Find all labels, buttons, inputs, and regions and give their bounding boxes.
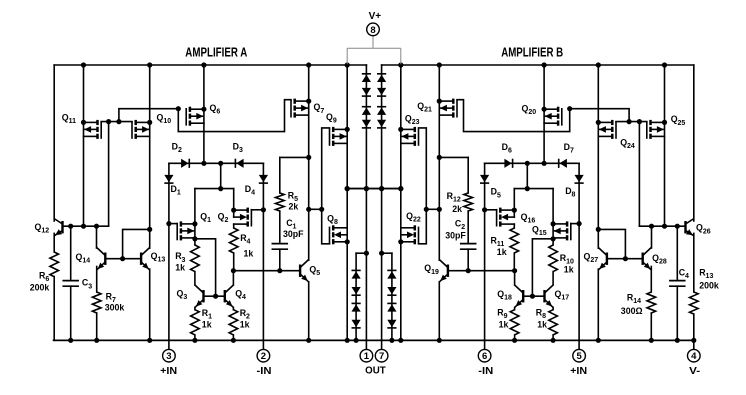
- svg-text:2: 2: [261, 351, 266, 362]
- wire diode network D5-D8: [485, 161, 579, 166]
- transistor Q1: [177, 221, 195, 240]
- resistor R6: [50, 252, 59, 277]
- transistor Q4: [225, 285, 234, 307]
- resistor R1: [191, 310, 200, 335]
- wire rail drop through Q7 to Q5 collector: [306, 62, 311, 260]
- diode chain top (D-string A): [362, 74, 371, 128]
- diode chain top (D-string B): [377, 74, 386, 128]
- diode D7: [559, 159, 567, 168]
- wire R11 to node: [512, 253, 517, 273]
- svg-text:1k: 1k: [497, 247, 507, 257]
- diode chain bottom (B side): [382, 253, 397, 343]
- wire C1 to Q5 base node: [277, 249, 282, 273]
- svg-text:1k: 1k: [175, 262, 185, 272]
- wire R2 to V- rail: [231, 335, 236, 343]
- wire Q17 emitter to R8: [552, 307, 554, 309]
- svg-text:1k: 1k: [244, 249, 254, 259]
- diode D1: [164, 175, 173, 183]
- wire rail drop to Q24 / Q27 collector: [596, 62, 601, 248]
- resistor R8: [549, 310, 558, 335]
- wire Q2 drain column: [231, 189, 236, 218]
- pin 3 terminal: [163, 349, 176, 362]
- wire +IN column (pin 5): [577, 163, 582, 349]
- wire Q16 drain column: [512, 189, 517, 218]
- wire R6 to V- rail: [53, 277, 55, 341]
- svg-text:2k: 2k: [289, 202, 299, 212]
- svg-text:1k: 1k: [564, 264, 574, 274]
- wire Q27/Q28 base net: [598, 229, 642, 261]
- wire Q17/Q18 base net: [523, 239, 553, 299]
- transistor Q14: [97, 248, 106, 270]
- wire rail drop through Q9 to node: [345, 62, 350, 188]
- svg-text:8: 8: [370, 25, 375, 36]
- svg-text:5: 5: [576, 351, 582, 362]
- wire Q1 drain column: [192, 189, 197, 245]
- wire Q4 emitter to R2: [232, 307, 234, 309]
- pin 6 terminal: [478, 349, 491, 362]
- svg-text:+IN: +IN: [570, 366, 587, 377]
- wire +IN column (pin 3): [166, 163, 171, 349]
- transistor Q23: [401, 127, 419, 146]
- wire Q19 emitter to V- rail: [437, 282, 442, 343]
- wire R5 to C1: [279, 211, 281, 244]
- resistor R2: [229, 310, 238, 335]
- svg-text:1k: 1k: [202, 319, 212, 329]
- wire OUT column (pin 1): [364, 65, 369, 349]
- transistor Q19: [439, 260, 448, 282]
- svg-text:2k: 2k: [452, 204, 462, 214]
- wire R5 branch: [280, 157, 309, 193]
- transistor Q17: [545, 285, 554, 307]
- wire R10 to Q17 collector: [552, 272, 554, 285]
- pin 2 terminal: [257, 349, 270, 362]
- wire C4 top lead: [676, 226, 678, 280]
- wire Q2 source to R4: [233, 224, 235, 228]
- diode D5: [480, 175, 489, 183]
- wire Q15 gate lead: [571, 223, 579, 225]
- wire Q16 source to R11: [513, 224, 515, 228]
- wire V- rail to pin 4: [691, 338, 696, 350]
- pin 8 V+ terminal: [367, 23, 380, 36]
- wire Q18 emitter to R9: [514, 307, 516, 309]
- wire Q4 collector: [232, 271, 234, 285]
- wire OUT column (pin 7): [379, 65, 384, 349]
- resistor R10: [549, 245, 558, 272]
- pin 4 terminal: [688, 349, 701, 362]
- svg-text:300Ω: 300Ω: [621, 306, 643, 316]
- wire Q28 collector riser: [651, 226, 653, 248]
- svg-text:200k: 200k: [699, 281, 719, 291]
- transistor Q6: [186, 107, 204, 126]
- wire V- rail (mirror overlay): [54, 339, 694, 341]
- wire rail drop through Q21 to Q19 collector: [437, 62, 442, 260]
- svg-text:6: 6: [482, 351, 487, 362]
- wire Q12 base net: [63, 224, 109, 229]
- wire Q2 gate lead: [251, 209, 263, 211]
- wire Q18 collector: [514, 271, 516, 285]
- svg-text:AMPLIFIER A: AMPLIFIER A: [185, 46, 247, 60]
- svg-text:1k: 1k: [240, 319, 250, 329]
- wire R3 to Q3 collector: [194, 272, 196, 285]
- resistor R13: [690, 292, 699, 314]
- transistor Q7: [291, 99, 309, 118]
- wire Q11-Q10 gate net: [101, 106, 181, 226]
- diode D6: [504, 159, 512, 168]
- svg-text:300k: 300k: [105, 302, 125, 312]
- wire Q20 gate to Q21 gate: [457, 100, 570, 132]
- wire Q8 drain-source column: [345, 189, 350, 343]
- resistor R12: [464, 193, 473, 211]
- transistor Q28: [643, 248, 652, 270]
- svg-text:1k: 1k: [537, 320, 547, 330]
- transistor Q16: [497, 208, 515, 227]
- wire Q13/Q14 base net: [105, 229, 149, 261]
- wire V+ rail (A side): [54, 64, 366, 66]
- wire Q28 emitter to R14: [650, 267, 652, 293]
- transistor Q13: [141, 248, 150, 270]
- diode chain bottom (A side): [352, 253, 367, 343]
- svg-text:AMPLIFIER B: AMPLIFIER B: [501, 46, 563, 60]
- wire rail drop to Q6 source node: [201, 62, 206, 165]
- wire Q1 gate lead: [169, 223, 177, 225]
- svg-text:4: 4: [691, 351, 697, 362]
- transistor Q18: [515, 285, 524, 307]
- wire Q13 emitter to V- rail: [147, 269, 152, 343]
- transistor Q21: [439, 99, 457, 118]
- svg-text:-IN: -IN: [478, 366, 493, 377]
- wire rail drop to Q10 / Q13 collector: [147, 62, 152, 248]
- transistor Q9: [330, 127, 348, 146]
- wire C2 to Q19 base node: [466, 249, 471, 273]
- wire Q26 emitter to R13: [693, 233, 695, 292]
- wire Q6 gate to Q7 gate: [178, 100, 291, 132]
- wire bias node horizontal (mirror overlay): [345, 186, 404, 191]
- transistor Q8: [330, 225, 348, 244]
- resistor R9: [510, 310, 519, 335]
- resistor R14: [647, 292, 656, 313]
- wire right edge (Q26 collector to rail): [693, 65, 695, 221]
- wire Q14 collector riser: [96, 226, 98, 248]
- transistor Q20: [544, 107, 562, 126]
- resistor R7: [92, 292, 101, 313]
- wire diode network D1-D4: [169, 161, 264, 166]
- diode D4: [259, 175, 268, 183]
- wire R9 to V- rail: [512, 335, 517, 343]
- wire -IN column (pin 2): [261, 163, 266, 349]
- wire R14 to V- rail: [649, 313, 654, 343]
- wire C3 to V- rail: [68, 286, 73, 343]
- wire rail drop through Q23 to node: [398, 62, 403, 188]
- wire R12 to C2: [467, 211, 469, 244]
- wire bias node horizontal: [345, 186, 404, 191]
- wire Q3 emitter to R1: [194, 307, 196, 309]
- resistor R11: [510, 228, 519, 253]
- resistor R4: [229, 228, 238, 253]
- transistor Q2: [234, 208, 252, 227]
- wire R12 branch: [439, 157, 468, 193]
- svg-text:7: 7: [379, 351, 384, 362]
- wire -IN column (pin 6): [482, 163, 487, 349]
- wire Q5 emitter to V- rail: [306, 282, 311, 343]
- wire V+ pin 8 feed (thin): [347, 36, 401, 64]
- capacitor C1: [272, 244, 287, 250]
- svg-text:1: 1: [364, 351, 370, 362]
- wire Q19 base net: [448, 270, 514, 272]
- svg-text:200k: 200k: [30, 283, 50, 293]
- transistor Q10: [132, 120, 150, 139]
- wire left edge (Q12 collector to rail): [53, 65, 55, 221]
- wire C3 top lead: [70, 226, 72, 280]
- wire rail drop to Q11: [81, 62, 86, 228]
- pin 1 terminal: [360, 349, 373, 362]
- transistor Q11: [84, 120, 102, 139]
- wire Q22 drain-source column: [398, 189, 403, 343]
- wire Q27 emitter to V- rail: [596, 269, 601, 343]
- wire Q5 base net: [234, 270, 300, 272]
- svg-text:OUT: OUT: [365, 366, 386, 377]
- pin 7 terminal: [375, 349, 388, 362]
- transistor Q24: [598, 120, 616, 139]
- transistor Q25: [647, 120, 665, 139]
- wire Q3/Q4 base net: [195, 239, 225, 299]
- pin 5 terminal: [573, 349, 586, 362]
- diode D8: [575, 175, 584, 183]
- transistor Q26: [686, 219, 695, 236]
- wire R7 to V- rail: [94, 313, 99, 343]
- wire R13 to V- rail: [693, 314, 695, 340]
- wire V+ rail (B side): [382, 64, 694, 66]
- wire input pair tail (B side): [514, 163, 553, 191]
- transistor Q3: [195, 285, 204, 307]
- transistor Q15: [553, 221, 571, 240]
- diode D2: [181, 159, 189, 168]
- wire R1 to V- rail: [192, 335, 197, 343]
- wire Q25-Q24 gate net: [567, 106, 647, 226]
- transistor Q22: [401, 225, 419, 244]
- resistor R5: [276, 193, 285, 211]
- capacitor C2: [461, 244, 476, 250]
- wire Q8/Q9 gate net: [309, 128, 330, 244]
- svg-text:-IN: -IN: [257, 366, 272, 377]
- svg-text:V-: V-: [689, 366, 700, 377]
- capacitor C3: [63, 281, 78, 287]
- wire R4 to node: [231, 253, 236, 273]
- wire Q26 base net: [639, 224, 685, 229]
- wire Q14 emitter to R7: [96, 267, 98, 293]
- wire rail drop to Q25: [662, 62, 667, 228]
- transistor Q12: [54, 219, 63, 236]
- wire Q15 drain column: [551, 189, 556, 245]
- svg-text:3: 3: [166, 351, 171, 362]
- svg-text:30pF: 30pF: [283, 229, 304, 239]
- wire V- rail: [54, 339, 694, 341]
- capacitor C4: [670, 281, 685, 287]
- diode D3: [235, 159, 243, 168]
- svg-text:30pF: 30pF: [445, 230, 466, 240]
- svg-text:+IN: +IN: [160, 366, 177, 377]
- transistor Q27: [598, 248, 607, 270]
- wire input pair tail: [195, 163, 234, 191]
- wire Q22/Q23 gate net: [419, 128, 440, 244]
- wire Q16 gate lead: [485, 209, 497, 211]
- wire Q12 emitter to R6: [53, 233, 55, 252]
- transistor Q5: [300, 260, 309, 282]
- svg-text:1k: 1k: [499, 320, 509, 330]
- wire R8 to V- rail: [551, 335, 556, 343]
- svg-text:V+: V+: [369, 11, 382, 22]
- wire C4 to V- rail: [675, 286, 680, 343]
- resistor R3: [191, 245, 200, 272]
- wire rail drop to Q20 source node: [542, 62, 547, 165]
